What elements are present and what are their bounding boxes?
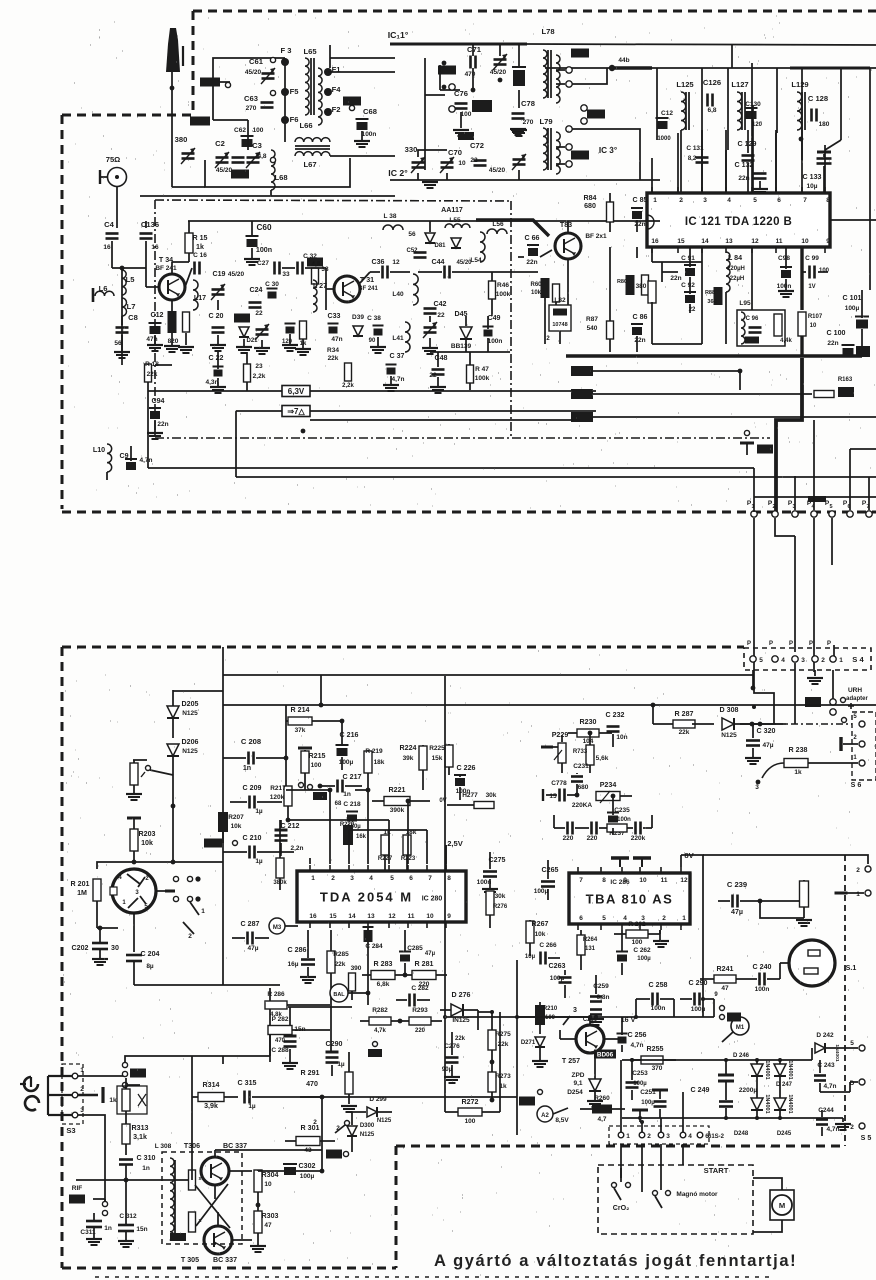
svg-text:BC 337: BC 337	[223, 1142, 247, 1150]
wire box 91	[652, 247, 702, 344]
resistor R19	[178, 312, 194, 353]
rail 703	[223, 704, 447, 706]
svg-text:C98: C98	[778, 255, 790, 262]
svg-text:1: 1	[653, 197, 657, 204]
svg-text:L95: L95	[739, 300, 751, 307]
svg-text:100n: 100n	[617, 817, 631, 823]
svg-text:START: START	[704, 1166, 729, 1175]
wire to S5 pins	[820, 1048, 858, 1092]
svg-text:BF 241: BF 241	[155, 265, 177, 272]
ground right	[835, 1118, 851, 1130]
svg-text:4: 4	[623, 915, 627, 922]
svg-text:90: 90	[369, 338, 376, 344]
coil-transformer L67	[295, 138, 330, 169]
svg-text:C 85: C 85	[633, 196, 648, 204]
svg-text:C61: C61	[249, 57, 264, 66]
svg-text:2,5V: 2,5V	[447, 839, 464, 848]
speaker/connector dashed right	[844, 855, 846, 1146]
black box 72	[519, 1090, 543, 1106]
ground pin2 tba	[653, 930, 669, 947]
cross coupling	[195, 1184, 230, 1228]
resistor R46 100k	[489, 272, 511, 316]
capacitor C226 100n	[454, 764, 476, 800]
black box A3	[326, 1148, 352, 1159]
svg-text:S3: S3	[66, 1126, 75, 1135]
svg-text:43: 43	[304, 1147, 312, 1154]
tuner wires	[172, 58, 395, 196]
capacitor C288 15n	[271, 1007, 305, 1069]
svg-text:22n: 22n	[634, 337, 645, 344]
coil L127	[731, 80, 748, 130]
svg-text:L125: L125	[676, 80, 694, 89]
svg-text:C 100: C 100	[827, 329, 846, 337]
transistor T34	[155, 256, 185, 300]
svg-text:56: 56	[114, 340, 122, 347]
RIF input	[69, 1185, 108, 1216]
svg-text:3: 3	[801, 657, 805, 664]
capacitor C60 100n	[244, 221, 272, 265]
svg-text:1: 1	[626, 1133, 630, 1140]
svg-text:1: 1	[201, 908, 205, 915]
svg-text:22k: 22k	[679, 729, 690, 736]
svg-text:C 239: C 239	[727, 880, 747, 889]
transistor T83	[555, 221, 607, 290]
svg-text:1µ: 1µ	[255, 858, 263, 865]
label 2,5V	[447, 839, 464, 848]
capacitor C311 1n	[80, 1213, 111, 1245]
capacitor C12 47n	[146, 311, 163, 351]
TBA810 tabs	[611, 858, 651, 867]
voltage label nets	[571, 366, 854, 399]
svg-text:L7: L7	[127, 302, 136, 311]
svg-text:C 217: C 217	[343, 773, 362, 781]
bold drop P2	[776, 358, 802, 512]
svg-text:270: 270	[523, 119, 534, 126]
connector row P1-P7	[747, 500, 872, 517]
svg-text:C24: C24	[249, 286, 262, 294]
verticals mid bottom	[478, 960, 519, 1135]
svg-text:4,4k: 4,4k	[780, 338, 792, 344]
svg-text:L127: L127	[731, 80, 748, 89]
svg-text:C778: C778	[551, 780, 567, 787]
capacitor C251 100u	[640, 1089, 666, 1118]
svg-text:C 210: C 210	[243, 834, 262, 842]
svg-text:D206: D206	[182, 738, 199, 746]
svg-text:R207: R207	[228, 814, 244, 821]
wire P1 up	[753, 468, 755, 512]
svg-text:7: 7	[428, 875, 432, 882]
label box 3A	[571, 49, 605, 160]
svg-text:3: 3	[703, 197, 707, 204]
svg-text:100k: 100k	[475, 375, 490, 382]
capacitor C136	[140, 220, 160, 268]
board border top dashed	[193, 10, 876, 13]
svg-text:C 240: C 240	[753, 963, 772, 971]
svg-text:R255: R255	[647, 1045, 664, 1053]
svg-text:P: P	[809, 641, 813, 647]
capacitor C98 100n	[777, 247, 794, 297]
svg-text:C290: C290	[326, 1040, 343, 1048]
capacitor C8	[114, 313, 138, 358]
svg-text:R313: R313	[132, 1124, 149, 1132]
varicap C23	[254, 324, 270, 354]
svg-text:5,6k: 5,6k	[596, 755, 609, 762]
svg-text:1N4001: 1N4001	[764, 1094, 770, 1113]
wire P3 up	[794, 476, 796, 510]
svg-text:C 99: C 99	[805, 255, 819, 262]
svg-text:30: 30	[111, 944, 119, 952]
IC1 terminal label	[388, 30, 409, 40]
capacitor C216 100u	[336, 719, 359, 770]
svg-text:100µ: 100µ	[339, 759, 354, 766]
resistor R34 22k	[327, 347, 354, 389]
svg-text:R 287: R 287	[675, 710, 694, 718]
svg-text:BAL: BAL	[333, 992, 345, 998]
svg-text:C8: C8	[128, 313, 138, 322]
pot P229	[541, 731, 568, 773]
svg-text:1k: 1k	[794, 769, 802, 776]
speaker	[789, 940, 856, 986]
svg-text:T83: T83	[560, 221, 572, 229]
resistor R203 10k	[130, 827, 156, 862]
svg-text:10: 10	[801, 238, 809, 245]
label 45/20 low	[489, 167, 506, 174]
IF sub-board dash-dot top	[155, 200, 511, 201]
svg-text:C62: C62	[234, 127, 246, 134]
svg-text:R 15: R 15	[193, 234, 208, 242]
svg-text:16k: 16k	[356, 834, 367, 840]
svg-text:380: 380	[636, 283, 647, 290]
switch lever	[133, 760, 173, 775]
capacitor C275	[477, 852, 506, 895]
diode D242	[812, 1032, 843, 1062]
svg-text:R 291: R 291	[301, 1069, 320, 1077]
resistor R88 360	[705, 287, 723, 305]
svg-text:68: 68	[335, 801, 342, 807]
svg-text:10µ: 10µ	[525, 954, 536, 960]
svg-text:11: 11	[776, 238, 783, 245]
svg-text:33: 33	[282, 271, 290, 278]
resistor R283 6,8k	[362, 960, 405, 988]
svg-text:L41: L41	[392, 335, 404, 342]
resistor R214 37k	[284, 705, 340, 790]
svg-text:47n: 47n	[146, 336, 157, 343]
svg-text:37k: 37k	[295, 727, 306, 734]
svg-text:100µ: 100µ	[633, 1081, 647, 1087]
svg-text:S.1: S.1	[846, 964, 857, 972]
svg-text:47µ: 47µ	[248, 945, 259, 952]
resistor R29 1k	[295, 321, 311, 355]
capacitor C130	[745, 101, 763, 128]
svg-text:3: 3	[350, 875, 354, 882]
svg-text:220: 220	[587, 835, 598, 842]
svg-text:C 310: C 310	[137, 1154, 156, 1162]
svg-text:100µ: 100µ	[534, 888, 549, 895]
S4 wires down	[751, 670, 833, 700]
wire T83 col	[545, 290, 568, 344]
capacitor C44 45/20	[418, 258, 472, 279]
svg-text:D81: D81	[434, 243, 446, 249]
svg-text:16: 16	[103, 244, 111, 251]
svg-text:C 86: C 86	[633, 313, 648, 321]
svg-text:22k: 22k	[455, 1036, 466, 1042]
svg-text:R264: R264	[583, 937, 598, 943]
capacitor C256 4,7n	[617, 1028, 647, 1052]
svg-text:8µ: 8µ	[146, 963, 154, 970]
svg-text:R 219: R 219	[365, 748, 383, 755]
svg-text:10n: 10n	[616, 734, 627, 741]
svg-text:100µ: 100µ	[637, 956, 651, 962]
svg-text:1µ: 1µ	[337, 1061, 345, 1068]
resistor R210 100	[535, 1002, 558, 1034]
resistors R227 R223	[378, 829, 417, 870]
voltage box 7,4V	[282, 406, 310, 417]
svg-text:C302: C302	[299, 1162, 316, 1170]
IF strip top rail	[188, 220, 660, 222]
svg-text:C94: C94	[151, 397, 164, 405]
coil L129	[791, 80, 808, 130]
svg-text:14: 14	[348, 913, 356, 920]
svg-text:C 92: C 92	[681, 282, 695, 289]
svg-text:100n: 100n	[755, 986, 770, 993]
circle A2	[537, 1106, 569, 1124]
svg-text:6,8: 6,8	[707, 107, 716, 114]
svg-text:8: 8	[826, 197, 830, 204]
svg-text:10748: 10748	[552, 322, 567, 328]
svg-text:2,2k: 2,2k	[253, 373, 266, 380]
resistor R282 4,7k	[360, 1007, 400, 1034]
capacitor C85 22n	[631, 196, 648, 232]
svg-text:15n: 15n	[136, 1226, 147, 1233]
wire right edge	[790, 68, 876, 290]
svg-text:1000: 1000	[657, 136, 671, 142]
terminal F6	[281, 115, 298, 124]
svg-text:D 242: D 242	[816, 1032, 834, 1039]
svg-text:22µH: 22µH	[730, 276, 744, 282]
capacitor C266	[525, 942, 560, 965]
svg-text:1M: 1M	[77, 889, 87, 897]
svg-text:2: 2	[188, 933, 192, 940]
capacitor C265 100u	[534, 860, 559, 900]
capacitor C33 47n	[327, 312, 342, 343]
net 420	[310, 412, 876, 422]
resistor R262 100	[614, 921, 660, 946]
svg-text:470: 470	[275, 1038, 286, 1044]
coil L68	[271, 150, 288, 190]
svg-text:22n: 22n	[738, 175, 749, 182]
svg-text:100: 100	[819, 268, 830, 274]
capacitor C91 C92	[662, 247, 696, 313]
svg-text:D245: D245	[777, 1131, 792, 1137]
resistor R80s	[617, 275, 657, 298]
svg-text:R107: R107	[808, 314, 823, 320]
rail 391	[148, 390, 596, 392]
right conn pins	[703, 855, 871, 898]
trimmer 45/20 top	[490, 54, 507, 76]
svg-text:16: 16	[309, 913, 317, 920]
tape connector row	[609, 1126, 725, 1144]
svg-text:39k: 39k	[403, 755, 414, 762]
capacitor C76 100	[454, 89, 472, 118]
wire 468 left	[147, 400, 149, 468]
svg-text:8,5V: 8,5V	[555, 1117, 569, 1124]
svg-text:22n: 22n	[670, 275, 681, 282]
svg-text:8: 8	[602, 877, 606, 884]
jack S3	[48, 1064, 84, 1135]
wire P7 up	[868, 477, 870, 510]
svg-text:C130: C130	[745, 101, 761, 108]
svg-text:C 312: C 312	[119, 1213, 137, 1220]
svg-text:BB139: BB139	[451, 343, 472, 350]
left col 223	[223, 647, 323, 985]
resistor R314 3,9k	[192, 1081, 238, 1110]
svg-text:C3: C3	[252, 141, 262, 150]
svg-text:C 22: C 22	[209, 354, 224, 362]
resistor R303 47	[250, 1203, 279, 1252]
TDA2054 pin wires up	[310, 788, 446, 864]
tape board left dashed	[61, 647, 64, 1268]
svg-text:R272: R272	[462, 1098, 479, 1106]
svg-text:C72: C72	[470, 141, 484, 150]
oscillator dashed box	[162, 1152, 242, 1244]
capacitor C61 45/20	[245, 57, 275, 84]
svg-text:10k: 10k	[531, 290, 542, 296]
svg-text:R241: R241	[717, 965, 734, 973]
svg-text:L 38: L 38	[384, 213, 397, 220]
svg-text:4: 4	[369, 875, 373, 882]
wire 8V col	[681, 855, 703, 1017]
svg-text:C 101: C 101	[843, 294, 862, 302]
switch CrO2	[612, 1168, 631, 1212]
right pins 1	[841, 698, 846, 703]
resistor R260 4,7	[580, 1095, 625, 1123]
circle M1	[722, 1017, 749, 1042]
diode D39	[352, 314, 364, 336]
svg-text:22: 22	[255, 310, 263, 317]
svg-text:12: 12	[392, 259, 400, 266]
svg-text:90µ: 90µ	[442, 1067, 453, 1073]
svg-text:1k: 1k	[109, 1097, 117, 1104]
IF sub-board dash-dot left	[154, 200, 156, 438]
svg-text:C42: C42	[433, 300, 446, 308]
svg-text:C33: C33	[327, 312, 340, 320]
svg-text:C 218: C 218	[343, 801, 361, 808]
svg-text:8,2: 8,2	[688, 156, 697, 162]
svg-text:C27: C27	[257, 260, 269, 267]
svg-text:4,8: 4,8	[257, 153, 266, 160]
svg-text:47µ: 47µ	[425, 951, 436, 957]
svg-text:540: 540	[587, 325, 598, 332]
trimmer C3	[246, 141, 267, 168]
motor M	[753, 1178, 794, 1232]
capacitor C22 4,3n	[205, 352, 226, 393]
svg-text:R285: R285	[333, 951, 349, 958]
coil L125	[676, 80, 694, 130]
svg-text:11: 11	[661, 877, 668, 884]
capacitor C70 10	[440, 148, 466, 173]
resistor R221 390k	[372, 786, 430, 814]
svg-text:2200µ: 2200µ	[739, 1087, 757, 1094]
capacitor C310 1n	[76, 1154, 192, 1182]
capacitor C66 22n	[518, 234, 552, 266]
antenna connector 75ohm	[100, 155, 127, 187]
svg-text:C68: C68	[363, 107, 377, 116]
coil L41	[392, 322, 410, 352]
svg-text:L56: L56	[492, 221, 504, 228]
svg-text:C12: C12	[150, 311, 163, 319]
svg-text:10k: 10k	[141, 839, 153, 847]
capacitor C38	[367, 315, 386, 353]
capacitor C99	[802, 255, 830, 290]
svg-text:S 6: S 6	[851, 781, 862, 789]
svg-text:R 283: R 283	[374, 960, 393, 968]
svg-text:C 208: C 208	[241, 737, 261, 746]
svg-text:C126: C126	[703, 78, 721, 87]
svg-text:100n: 100n	[362, 131, 377, 138]
trimmer P282	[268, 1016, 292, 1044]
svg-text:F5: F5	[290, 87, 300, 96]
svg-text:R46: R46	[497, 282, 509, 289]
diode D205 N125	[167, 690, 199, 738]
cap row 220	[554, 822, 652, 843]
resistor R above spk	[796, 881, 812, 926]
svg-text:IC₁1°: IC₁1°	[388, 30, 409, 40]
svg-text:11: 11	[408, 913, 415, 920]
coil row risers	[657, 68, 841, 193]
wire left rail	[121, 316, 123, 325]
coil L308	[155, 1143, 175, 1240]
svg-text:10: 10	[810, 323, 817, 329]
svg-text:16 V: 16 V	[621, 1016, 636, 1024]
resistor R224 39k	[400, 744, 427, 790]
resistor R219 18k	[364, 748, 385, 790]
svg-text:R 262: R 262	[628, 921, 646, 928]
wires to pins	[556, 68, 640, 180]
start wires	[621, 1144, 683, 1192]
svg-text:N125: N125	[721, 732, 737, 739]
svg-text:C 66: C 66	[525, 234, 540, 242]
coil L40	[392, 274, 418, 305]
wire 75ohm down	[116, 187, 118, 228]
svg-text:S 4: S 4	[852, 655, 864, 664]
svg-text:L68: L68	[274, 173, 287, 182]
zener D254 ZPD9,1	[567, 1052, 603, 1107]
capacitor C132 22n	[735, 161, 768, 195]
svg-text:5: 5	[390, 875, 394, 882]
capacitor electrolytic	[512, 67, 526, 86]
svg-text:P234: P234	[600, 781, 617, 789]
svg-text:C253: C253	[632, 1070, 648, 1077]
resistor R272 100	[445, 1098, 500, 1125]
C315 net right	[300, 1096, 517, 1098]
svg-text:C 286: C 286	[288, 946, 307, 954]
coil L6	[93, 284, 114, 302]
bus 44b	[545, 45, 876, 71]
capacitor C86 22n	[631, 313, 648, 344]
svg-text:C48: C48	[434, 354, 447, 362]
svg-text:16: 16	[651, 238, 659, 245]
svg-text:F6: F6	[290, 115, 299, 124]
S3 wires	[78, 1076, 125, 1201]
capacitor C262 100u	[616, 930, 651, 975]
svg-text:D248: D248	[734, 1131, 749, 1137]
svg-text:D271: D271	[521, 1040, 536, 1046]
svg-text:22n: 22n	[526, 259, 537, 266]
svg-text:L79: L79	[539, 117, 552, 126]
svg-text:C 320: C 320	[757, 727, 776, 735]
svg-text:C71: C71	[467, 45, 482, 54]
svg-text:47µ: 47µ	[731, 908, 743, 916]
